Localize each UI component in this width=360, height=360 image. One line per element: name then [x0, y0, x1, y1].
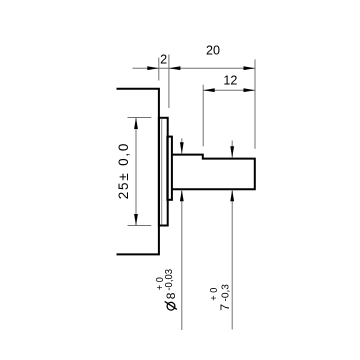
dimension line 25 [135, 118, 137, 226]
svg-text:20: 20 [206, 44, 220, 58]
arrow right at shaft end (20) [244, 66, 256, 70]
extension line body right face [158, 58, 160, 81]
svg-text:-0,03: -0,03 [164, 269, 175, 291]
arrow up dia8 [180, 190, 184, 202]
arrow down dia8 [180, 142, 184, 154]
svg-text:8: 8 [164, 292, 178, 299]
dimension line 7 lower [231, 190, 233, 330]
flange plate [159, 118, 168, 226]
extension line shaft step [202, 85, 204, 147]
dimension 25 extension top [128, 117, 152, 119]
dimension line 12 [203, 89, 255, 91]
arrow right at shaft end (12) [244, 88, 256, 92]
diameter symbol [167, 302, 175, 310]
flange inner edge (thin) [161, 118, 163, 224]
dimension line dia8 lower [181, 190, 183, 330]
arrow left at flange face [169, 66, 181, 70]
svg-text:-0,3: -0,3 [221, 284, 232, 302]
svg-text:2: 2 [160, 53, 167, 67]
arrow down (25) [134, 214, 138, 226]
body (motor housing, left, view cut off) [117, 89, 159, 255]
svg-text:7: 7 [218, 304, 232, 311]
extension line shaft end [254, 59, 256, 148]
svg-text:25± 0,0: 25± 0,0 [116, 142, 131, 200]
svg-text:12: 12 [223, 73, 237, 87]
shaft outline [172, 155, 255, 190]
arrow up (25) [134, 118, 138, 130]
arrow up 7 [230, 190, 234, 202]
arrow right at body face [147, 66, 159, 70]
hub step [167, 137, 172, 200]
dimension line dia8 upper [181, 138, 183, 154]
extension line flange right face [168, 55, 170, 109]
arrow left at step [203, 88, 215, 92]
svg-text:+ 0: + 0 [209, 288, 220, 301]
label dia8 tolerance [155, 269, 178, 310]
dimension line 7 upper [231, 141, 233, 158]
dimension line 2/20 [133, 67, 256, 69]
arrow down 7 [230, 146, 234, 158]
label 7 tolerance [209, 284, 232, 311]
dimension 25 extension bottom [128, 225, 152, 227]
